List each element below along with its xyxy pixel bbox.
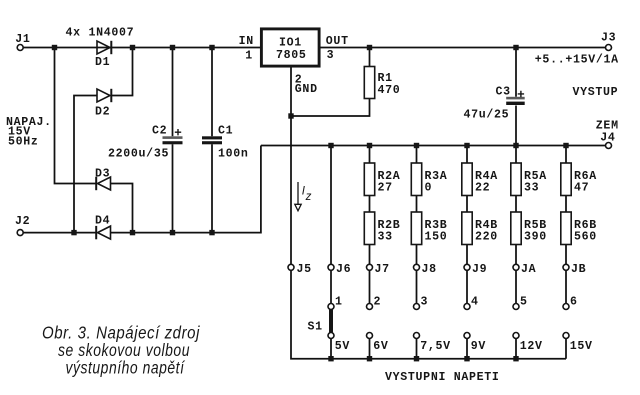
svg-text:47: 47 (574, 182, 589, 195)
svg-text:C1: C1 (218, 124, 233, 137)
resistor R6A (561, 163, 571, 196)
connector J6 (328, 264, 334, 270)
capacitor C3 (506, 97, 525, 105)
junction ZEM bus column 1 (328, 143, 333, 148)
wire column 6 R6A R6B JB (565, 146, 567, 359)
resistor R2A (364, 163, 374, 196)
junction C3 at OUT rail (513, 45, 518, 50)
wire switch output to 5V tap (330, 338, 332, 358)
diode D3 (96, 177, 110, 190)
polarity plus of C3 (518, 91, 524, 97)
resistor R4B (462, 212, 472, 245)
svg-text:1: 1 (335, 296, 343, 309)
wire C2 column (172, 48, 174, 233)
resistor R4A (462, 163, 472, 196)
wire bottom rail from J2 through D4 to riser (23, 146, 261, 233)
svg-text:5: 5 (520, 296, 528, 309)
svg-text:33: 33 (524, 182, 539, 195)
svg-text:J9: J9 (472, 263, 487, 276)
svg-text:47u/25: 47u/25 (464, 108, 510, 121)
svg-text:IN: IN (239, 35, 254, 48)
svg-text:JB: JB (571, 263, 586, 276)
connector J7 (367, 264, 373, 270)
resistor R3A (411, 163, 421, 196)
resistor R1 (364, 67, 374, 99)
wire C1 column (211, 48, 213, 233)
wire D2 row: anode lead left and down to J2 rail (74, 96, 97, 233)
svg-text:D3: D3 (95, 167, 110, 180)
svg-text:5V: 5V (335, 340, 350, 353)
svg-text:33: 33 (378, 231, 393, 244)
connector JA (513, 264, 519, 270)
svg-text:J7: J7 (375, 263, 390, 276)
capacitor C2 (163, 136, 183, 144)
resistor R2B (364, 212, 374, 245)
wire column 4 R4A R4B J9 (466, 146, 468, 359)
junction D4 anode at bottom rail (130, 230, 135, 235)
svg-text:1: 1 (245, 50, 253, 63)
diode D2 (97, 89, 111, 102)
switch contact 4 (464, 304, 470, 310)
wire column 1 bus to J6 (330, 146, 332, 265)
op-amp regulator IO1 7805 box (261, 29, 319, 66)
wire column 5 R5A R5B JA (515, 146, 517, 359)
svg-text:2200u/35: 2200u/35 (108, 148, 169, 161)
wire D3 anode right and down to bottom rail (111, 184, 133, 233)
switch S1 wiper bar (329, 309, 333, 334)
svg-text:9V: 9V (471, 340, 486, 353)
junction C1 at top rail (209, 45, 214, 50)
wire node A down from top rail to D3 cathode row (55, 48, 97, 184)
resistor R6B (561, 212, 571, 245)
wire top rail from J1 to IO1 IN pin (23, 47, 260, 49)
svg-text:OUT: OUT (326, 35, 349, 48)
connector J3 output (606, 45, 612, 51)
diode D1 (97, 41, 111, 54)
junction ZEM bus column 4 (464, 143, 469, 148)
svg-text:GND: GND (295, 83, 318, 96)
junction bottom bus 12V (513, 356, 518, 361)
wire R1 top lead (369, 48, 371, 67)
svg-text:VYSTUPNI NAPETI: VYSTUPNI NAPETI (385, 371, 500, 384)
wire J5 down and right to bottom output bus (291, 270, 566, 359)
svg-text:výstupního napětí: výstupního napětí (66, 357, 186, 377)
caption Obr. 3 (42, 322, 200, 377)
resistor R3B (411, 212, 421, 245)
svg-text:VYSTUP: VYSTUP (573, 86, 619, 99)
svg-text:J5: J5 (297, 263, 312, 276)
wire C3 leads (515, 48, 517, 146)
wire IO1 GND pin down to divider node (290, 68, 292, 117)
svg-text:D1: D1 (95, 56, 110, 69)
junction C1 at bottom rail (209, 230, 214, 235)
svg-text:1N4007: 1N4007 (89, 27, 135, 40)
junction ZEM bus column 6 (563, 143, 568, 148)
svg-text:J6: J6 (336, 263, 351, 276)
svg-text:3: 3 (421, 296, 429, 309)
svg-text:15V: 15V (570, 340, 593, 353)
svg-text:2: 2 (374, 296, 382, 309)
svg-text:12V: 12V (520, 340, 543, 353)
svg-text:J3: J3 (601, 31, 616, 44)
connector J8 (414, 264, 420, 270)
capacitor C1 (202, 136, 222, 144)
svg-text:220: 220 (475, 231, 498, 244)
wire D2 cathode up to top rail (112, 48, 133, 96)
svg-text:4: 4 (471, 296, 479, 309)
svg-text:S1: S1 (308, 321, 323, 334)
junction ZEM bus column 5 (513, 143, 518, 148)
resistor R5B (511, 212, 521, 245)
svg-text:IO1: IO1 (279, 36, 302, 49)
tap 6V (367, 333, 373, 339)
switch contact 2 (367, 304, 373, 310)
junction bottom bus 6V (367, 356, 372, 361)
connector J1 (17, 45, 23, 51)
svg-text:50Hz: 50Hz (8, 136, 39, 149)
svg-text:3: 3 (327, 49, 335, 62)
switch contact 5 (513, 304, 519, 310)
tap 7,5V (414, 333, 420, 339)
wire divider node down through ZEM bus crossing to J5 (290, 116, 292, 264)
junction bottom bus 7,5V (414, 356, 419, 361)
svg-text:J4: J4 (600, 131, 615, 144)
connector JB (563, 264, 569, 270)
wire OUT rail from IO1 to J3 (321, 47, 606, 49)
connector J9 (464, 264, 470, 270)
junction ZEM bus column 2 (367, 143, 372, 148)
wire ZEM bus (261, 145, 606, 147)
junction bottom bus 5V (328, 356, 333, 361)
svg-text:+5..+15V/1A: +5..+15V/1A (535, 53, 619, 66)
svg-text:7,5V: 7,5V (420, 340, 451, 353)
tap 5V (328, 333, 334, 339)
junction ZEM bus column 3 (414, 143, 419, 148)
wire column 3 R3A R3B J8 (416, 146, 418, 359)
svg-text:z: z (305, 190, 312, 203)
svg-text:560: 560 (574, 231, 597, 244)
svg-text:C2: C2 (152, 124, 167, 137)
svg-text:6V: 6V (373, 340, 388, 353)
svg-text:C3: C3 (496, 86, 511, 99)
switch contact 3 (414, 304, 420, 310)
svg-text:100n: 100n (218, 148, 249, 161)
junction GND divider node (288, 113, 293, 118)
svg-text:D4: D4 (95, 215, 110, 228)
switch contact 6 (563, 304, 569, 310)
svg-text:4x: 4x (66, 27, 81, 40)
connector J2 (17, 230, 23, 236)
svg-text:JA: JA (521, 263, 536, 276)
junction top rail node A (52, 45, 57, 50)
wire J6 to switch contact 1 (330, 270, 332, 303)
connector J4 ZEM ground (606, 143, 612, 149)
junction D2 anode at bottom rail (71, 230, 76, 235)
svg-text:J1: J1 (15, 33, 30, 46)
svg-text:390: 390 (524, 231, 547, 244)
svg-text:22: 22 (475, 182, 490, 195)
svg-text:6: 6 (570, 296, 578, 309)
resistor R5A (511, 163, 521, 196)
current arrow Iz (295, 182, 301, 211)
svg-text:7805: 7805 (276, 49, 307, 62)
polarity plus of C2 (175, 129, 181, 135)
junction bottom bus 9V (464, 356, 469, 361)
svg-text:27: 27 (378, 182, 393, 195)
junction D1 cathode at top rail (130, 45, 135, 50)
wire column 2 R2A R2B J7 (369, 146, 371, 359)
diode D4 (96, 226, 110, 239)
svg-text:J2: J2 (15, 215, 30, 228)
tap 12V (513, 333, 519, 339)
svg-text:J8: J8 (422, 263, 437, 276)
junction R1 at OUT rail (367, 45, 372, 50)
junction C2 at bottom rail (170, 230, 175, 235)
connector J5 (288, 264, 294, 270)
junction C2 at top rail (170, 45, 175, 50)
svg-text:0: 0 (425, 182, 433, 195)
svg-text:150: 150 (425, 231, 448, 244)
svg-text:D2: D2 (95, 106, 110, 119)
tap 15V (563, 333, 569, 339)
tap 9V (464, 333, 470, 339)
svg-text:470: 470 (378, 84, 401, 97)
wire R1 bottom lead to GND node (291, 99, 370, 117)
switch contact 1 (328, 304, 334, 310)
